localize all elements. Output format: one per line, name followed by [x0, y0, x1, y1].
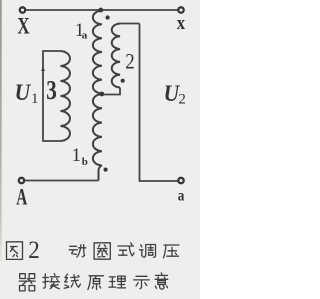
winding 3 frame (left rectangle)	[43, 51, 61, 141]
svg-text:2: 2	[125, 49, 135, 74]
terminal a	[178, 178, 183, 183]
svg-text:a: a	[82, 30, 88, 42]
polarity dot coil 2	[121, 79, 125, 83]
wire top X to x	[26, 9, 178, 11]
char shi (type)	[118, 243, 134, 256]
char qi (device)	[19, 274, 35, 291]
char shi4 (show-1)	[134, 276, 150, 288]
char tiao (adjust)	[140, 245, 156, 258]
caption CJK hand-drawn	[7, 242, 180, 291]
char quan (coil)	[94, 243, 110, 259]
wire bottom left A to winding1 bottom	[25, 180, 99, 182]
terminal x	[178, 7, 183, 12]
svg-text:x: x	[177, 13, 186, 34]
svg-text:U: U	[15, 80, 32, 105]
char ya (voltage)	[164, 245, 180, 258]
svg-text:A: A	[16, 184, 27, 209]
char dong (moving)	[69, 245, 86, 257]
winding 1a (middle coil upper section)	[93, 11, 102, 94]
svg-text:a: a	[178, 188, 185, 205]
arrow tick on winding3 frame	[41, 66, 45, 71]
terminal X	[20, 7, 25, 12]
winding 1b (middle coil lower section)	[93, 94, 102, 181]
winding 3 coil (right side of rectangle)	[61, 51, 70, 141]
terminal A	[19, 178, 24, 183]
char yuan (principle-1)	[88, 276, 104, 290]
wire coil2 top stub	[120, 23, 140, 25]
polarity dot 1a	[106, 15, 110, 19]
char li (principle-2)	[109, 276, 126, 288]
wire tap stub winding1 to coil2 bottom	[102, 88, 120, 95]
polarity dot 1b	[104, 168, 108, 172]
svg-text:1: 1	[72, 145, 82, 166]
wire right vertical from coil2 stub down to terminal a	[140, 24, 178, 182]
char yi (meaning)	[155, 273, 168, 289]
junction top of winding 1	[98, 8, 103, 13]
svg-text:b: b	[82, 156, 88, 168]
char jie (connect)	[43, 274, 60, 289]
svg-text:1: 1	[31, 91, 39, 107]
svg-text:2: 2	[178, 92, 186, 108]
coil 2 (moving coil, right)	[112, 24, 120, 88]
svg-text:3: 3	[46, 75, 57, 105]
paper background	[0, 0, 200, 299]
char tu (figure)	[7, 242, 23, 260]
char xian (wire)	[64, 274, 80, 288]
svg-text:2: 2	[28, 237, 40, 264]
svg-text:X: X	[17, 13, 30, 38]
junction tap winding1 / coil2 stub	[99, 92, 104, 97]
